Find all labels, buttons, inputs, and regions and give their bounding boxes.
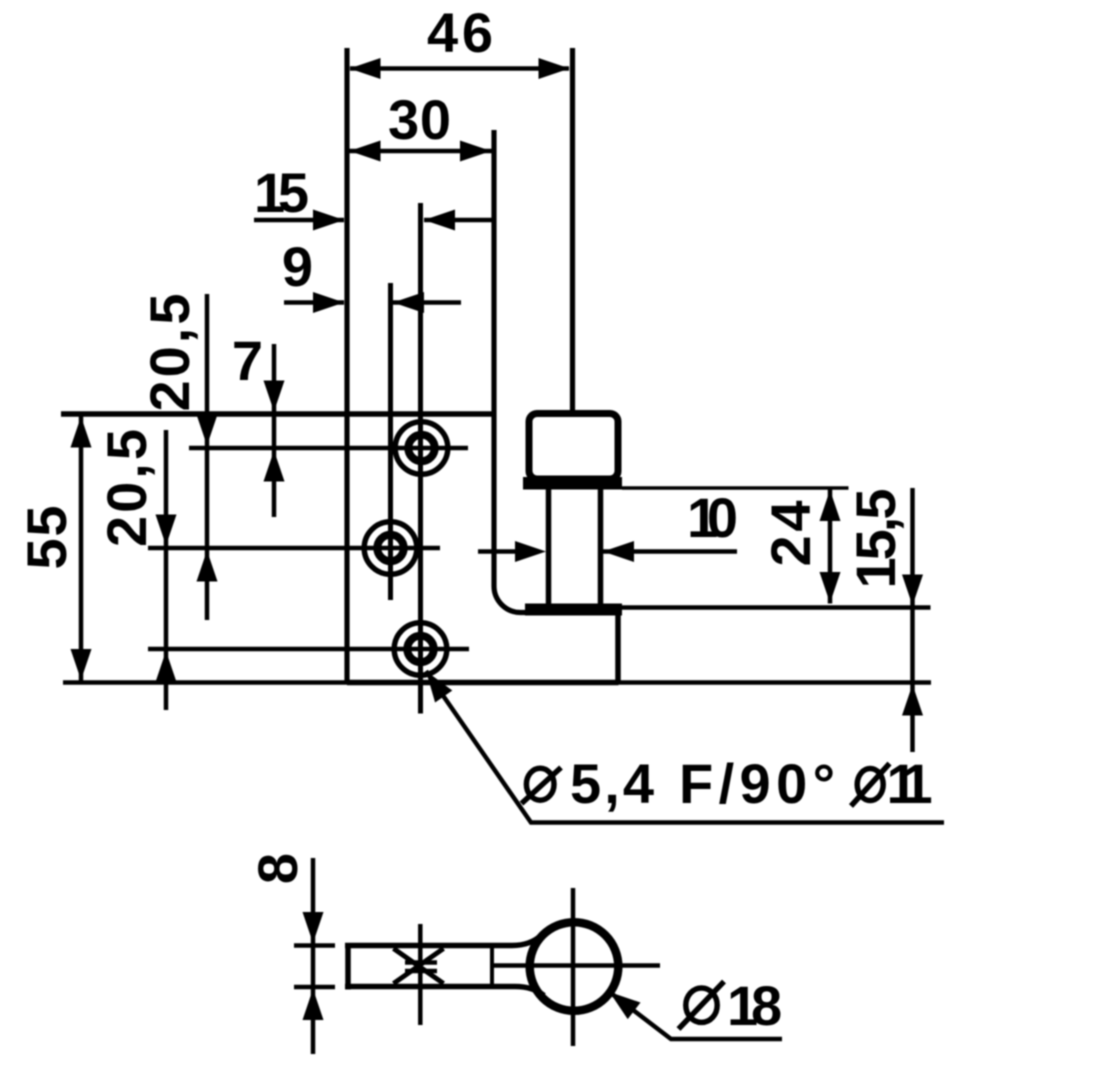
bracket step surface line (622, 605, 931, 610)
hole middle center line horizontal (148, 546, 440, 551)
svg-text:15: 15 (254, 161, 309, 224)
DIMENSION 20,5 lower (95, 429, 177, 710)
pin upper flange bar (523, 477, 622, 490)
hole bottom inner circle (407, 636, 433, 662)
countersink waist line upper (405, 960, 437, 965)
svg-text:15,5: 15,5 (844, 489, 907, 589)
bracket right edge (615, 615, 621, 683)
pin shaft right edge (598, 490, 604, 605)
extension tick top for 8 (294, 943, 335, 948)
DIMENSION 20,5 upper (138, 294, 218, 621)
DIMENSION 9 (282, 235, 461, 313)
DIMENSION 10 (478, 486, 738, 562)
DIMENSION 8 (246, 853, 324, 1054)
hole bottom outer circle (394, 623, 447, 676)
svg-text:55: 55 (15, 506, 78, 570)
hole center line vertical x=390 (388, 283, 393, 600)
hole top outer circle (countersink Ø11) (395, 422, 448, 475)
LEADER Ø5,4 countersink note (426, 671, 944, 823)
bottom extension line right (619, 680, 932, 685)
LEADER Ø18 note (610, 974, 783, 1039)
bottom extension line left (63, 680, 347, 685)
DIMENSION 55 (15, 414, 92, 682)
arm top edge with neck curve (345, 936, 541, 946)
bracket left edge with upper extension line (344, 48, 349, 683)
svg-text:7: 7 (232, 329, 263, 392)
countersink center line vertical (418, 924, 423, 1025)
DIMENSION 24 (622, 488, 849, 604)
hole bottom center line horizontal (148, 647, 469, 652)
svg-text:30: 30 (388, 88, 451, 151)
DIMENSION 15 (254, 161, 492, 231)
bracket bottom edge (347, 680, 619, 686)
boss circle Ø18 (530, 922, 619, 1011)
bracket top edge with left extension line (61, 411, 494, 417)
countersink waist line lower (405, 969, 437, 974)
svg-text:10: 10 (687, 486, 738, 549)
svg-text:8: 8 (246, 853, 309, 884)
countersink side-view diagonal 1 (394, 949, 444, 984)
arm right boundary line (490, 944, 494, 990)
hole top center line horizontal (189, 446, 468, 451)
extension tick bottom for 8 (294, 985, 335, 990)
svg-text:5,4: 5,4 (570, 752, 654, 815)
DIMENSION 46 (350, 1, 570, 79)
arm left edge (345, 943, 351, 990)
hole middle inner circle (377, 535, 403, 561)
svg-text:20,5: 20,5 (138, 294, 201, 412)
DIMENSION 7 (232, 329, 285, 517)
boss horizontal center line (493, 963, 660, 968)
DIMENSION 30 (346, 88, 493, 162)
svg-text:9: 9 (282, 235, 313, 298)
hole middle outer circle (364, 522, 417, 575)
pin bottom flange bar (525, 604, 622, 616)
hole center line vertical x=420 (418, 203, 423, 714)
hole top inner circle (Ø5,4) (408, 435, 434, 461)
arm bottom edge with neck curve (345, 987, 544, 996)
svg-text:20,5: 20,5 (95, 429, 158, 547)
pin head (529, 414, 618, 480)
svg-text:1: 1 (902, 752, 933, 815)
countersink side-view diagonal 2 (394, 949, 444, 984)
pin shaft left edge (546, 490, 552, 605)
boss vertical center line (571, 888, 576, 1046)
bracket inner vertical edge with upper extension and fillet (494, 130, 525, 613)
pin center line / 46 right extension line (570, 48, 575, 410)
svg-text:8: 8 (751, 974, 782, 1037)
DIMENSION 15,5 (844, 488, 923, 752)
